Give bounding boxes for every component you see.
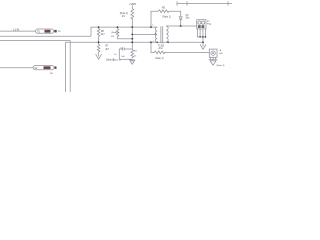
wire P2 left <box>0 67 33 69</box>
diode D5 <box>179 17 182 20</box>
node dot link R2 <box>131 38 133 40</box>
wire R1 to node <box>131 18 133 27</box>
node dot pin bar 3 <box>205 36 207 38</box>
svg-text:R1: R1 <box>122 16 126 18</box>
wire R3 to meter <box>164 51 209 53</box>
svg-text:1n: 1n <box>114 54 117 56</box>
svg-text:N2: N2 <box>50 73 54 75</box>
svg-text:10n: 10n <box>186 18 191 20</box>
svg-text:R2: R2 <box>111 36 115 38</box>
capacitor C1 <box>122 48 124 51</box>
node dot primary top at R2 <box>117 26 119 28</box>
svg-text:R7: R7 <box>105 46 109 48</box>
svg-text:C5: C5 <box>186 15 190 17</box>
svg-text:4k7: 4k7 <box>101 34 105 36</box>
wire mid stub <box>132 33 155 35</box>
node dot bus at loop drop <box>131 41 133 43</box>
wire left drop B <box>69 41 71 92</box>
svg-text:L1 IN: L1 IN <box>13 27 19 31</box>
node dot bus end <box>202 41 204 43</box>
svg-text:+VDD: +VDD <box>129 2 136 6</box>
pin mark stub <box>155 33 157 35</box>
node dot pin bar 1 <box>199 36 201 38</box>
svg-text:(Note 1): (Note 1) <box>120 12 129 15</box>
fuse P2 body <box>33 66 54 70</box>
ground chassis arrow left <box>96 54 102 59</box>
resistor R7 lower of chain <box>97 42 100 54</box>
node dot bus at R3 <box>150 41 152 43</box>
resistor R4 <box>131 49 134 58</box>
wire clamp path bottom <box>180 20 182 26</box>
node dot winding left bottom <box>156 42 158 44</box>
svg-text:R5: R5 <box>162 7 166 9</box>
wire left rail A <box>0 35 91 37</box>
svg-text:(Note 1): (Note 1) <box>155 57 164 60</box>
node dot primary top at R1 <box>131 26 133 28</box>
resistor R6 upper of chain <box>97 27 100 43</box>
transformer T1 left winding <box>155 27 157 42</box>
instrument B2 body <box>209 49 217 57</box>
resistor R5 <box>159 10 169 13</box>
P2 end mark <box>55 66 57 69</box>
node dot mid stub <box>131 34 133 36</box>
node dot primary top at clamp <box>150 26 152 28</box>
svg-text:xfmr: xfmr <box>158 47 163 50</box>
resistor R1 <box>131 9 134 20</box>
B1 pins <box>198 29 206 37</box>
svg-text:C1: C1 <box>120 47 124 49</box>
wire left drop A <box>64 42 66 92</box>
fuse P1 body <box>36 29 54 33</box>
svg-text:R4: R4 <box>134 51 138 53</box>
transformer T1 core <box>161 26 163 43</box>
svg-text:4k7: 4k7 <box>105 49 109 51</box>
node dot winding right bottom <box>167 42 169 44</box>
svg-text:(Note 1): (Note 1) <box>111 31 119 34</box>
B2 pins <box>211 57 216 59</box>
node tick 3 <box>227 1 229 5</box>
svg-text:R6: R6 <box>101 31 105 33</box>
wire R2 link <box>118 38 133 40</box>
svg-text:Plug: Plug <box>207 24 212 26</box>
B2 circle <box>211 51 215 55</box>
wire R3 branch <box>151 42 154 52</box>
wire P1 left <box>0 30 36 32</box>
node tick 2 <box>186 1 188 5</box>
resistor R2 <box>116 27 119 39</box>
node dot primary top at R chain <box>98 26 100 28</box>
svg-text:1: 1 <box>152 25 154 27</box>
wire loop bottom <box>119 58 132 60</box>
value P2 block <box>44 66 51 69</box>
wire secondary top <box>166 25 197 27</box>
node dot pin bar 2 <box>202 36 204 38</box>
wire P2 right tail <box>53 67 56 69</box>
svg-text:(Note 1): (Note 1) <box>163 16 172 19</box>
value P1 block <box>45 30 51 33</box>
ground earth B2 <box>209 60 218 65</box>
B2 circle mark <box>212 52 214 54</box>
ground chassis arrow right <box>200 44 206 49</box>
svg-text:1nF: 1nF <box>121 56 125 58</box>
svg-text:(Note 3): (Note 3) <box>217 64 225 67</box>
svg-text:N1: N1 <box>58 31 62 33</box>
wire B1 ground drop <box>202 37 204 44</box>
instrument B1 body <box>197 20 206 29</box>
node tick 1 <box>176 1 178 5</box>
node dot bus at chain <box>98 41 100 43</box>
wire loop drop <box>131 27 133 49</box>
junction dots <box>98 25 207 43</box>
resistor R3 <box>154 51 164 54</box>
wire bottom bus <box>65 41 203 43</box>
transformer T1 right winding <box>166 26 168 42</box>
wire clamp path vertical left <box>151 11 159 27</box>
svg-text:Mtr: Mtr <box>220 52 223 55</box>
svg-text:F1: F1 <box>37 30 40 33</box>
wire left rail B <box>0 40 70 42</box>
B1 inner marks <box>198 26 204 28</box>
B1 circle 2 <box>202 21 205 24</box>
svg-text:1k: 1k <box>134 56 137 58</box>
wire top-right rail <box>177 3 232 5</box>
wire P1 right tail <box>54 30 55 32</box>
P1 end mark <box>54 30 56 33</box>
svg-text:(Note 1): (Note 1) <box>113 59 121 62</box>
B1 circle 1 <box>198 21 201 24</box>
supply +VDD stem <box>131 5 133 8</box>
B1 pin bar <box>197 36 206 38</box>
svg-text:A: A <box>220 49 222 52</box>
wire loop top left <box>119 49 132 59</box>
ground earth loop <box>129 60 135 64</box>
node dot secondary top <box>180 25 182 27</box>
wire clamp path top <box>169 11 181 16</box>
wire primary top <box>91 27 157 36</box>
